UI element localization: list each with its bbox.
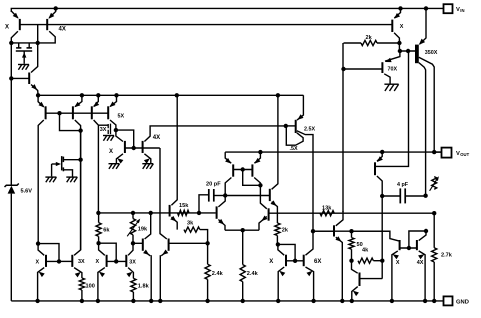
transistor Q25 4X (bottom right): [417, 231, 426, 301]
transistor Q3 (startup NPN): [11, 43, 38, 95]
jfet J3 3X (to ground): [98, 124, 110, 135]
resistor R14 100: [79, 278, 95, 301]
jfet J1 (startup FET, top-left): [16, 43, 32, 64]
ground for Q8 emitter: [109, 164, 120, 169]
resistor R6 2.4k (tail): [240, 230, 258, 301]
wire feedback node bus: [98, 212, 215, 214]
wire second rail (bias rail): [38, 94, 303, 96]
transistor Q31 3X: [72, 131, 85, 278]
ground for J3: [103, 136, 114, 141]
transistor Q20 2.5X (PNP): [286, 120, 316, 133]
svg-text:GND: GND: [456, 299, 469, 305]
node divider tap j: [432, 211, 436, 215]
resistor R2 19k (variable): [127, 213, 148, 243]
transistor Q28 350X (output PNP): [417, 8, 438, 195]
transistor Q5 (PNP diode 2): [73, 95, 82, 250]
transistor Q6 3X (PNP source 3): [92, 95, 99, 213]
transistor Q11 (inner NPN right): [160, 148, 208, 301]
transistor Q26 X (top right PNP): [392, 8, 404, 51]
ground for J2 gate: [45, 177, 56, 182]
svg-text:IN: IN: [460, 8, 464, 13]
transistor Q14 (mirror PNP right): [252, 152, 260, 185]
node fb j4: [197, 211, 201, 215]
transistor Q23 (SOA protection NPN): [352, 261, 383, 301]
wire base tie riser2: [409, 231, 426, 248]
svg-text:2k: 2k: [366, 35, 373, 41]
svg-text:4X: 4X: [59, 27, 66, 33]
wire bottom ground rail: [11, 300, 443, 302]
node Q20 base j: [284, 124, 288, 128]
svg-text:X: X: [109, 149, 113, 155]
transistor Q15 (diff NPN left): [217, 196, 226, 231]
node 4pF right j: [423, 194, 427, 198]
wire Xcol bus corner: [352, 231, 399, 241]
node ground rail j3: [96, 299, 100, 303]
resistor R10 4k: [358, 248, 382, 264]
node rail2 j5: [175, 93, 179, 97]
terminal VOUT: [434, 148, 469, 158]
node 6k bottom: [96, 241, 100, 245]
svg-text:X: X: [400, 24, 404, 30]
resistor R13 2.7k: [432, 213, 453, 301]
transistor Q17 (2nd stage NPN): [270, 95, 278, 223]
svg-text:70X: 70X: [388, 66, 398, 72]
wire mirror base bus: [125, 147, 160, 149]
capacitor C1 20pF: [199, 182, 225, 213]
transistor Q1 X (top-left PNP): [5, 11, 20, 186]
node Q30 collector j: [36, 241, 40, 245]
node zener-line junction: [9, 41, 13, 45]
node ground rail j5: [149, 299, 153, 303]
transistor Q18 X (bottom mirror diode): [269, 244, 286, 301]
wire 2k-to-6Xbase: [278, 244, 295, 260]
wire Q32-Q33 base bus: [107, 260, 127, 262]
svg-text:3X: 3X: [129, 259, 136, 265]
node ground rail j8: [241, 299, 245, 303]
wire diff tail: [225, 229, 259, 231]
svg-text:4k: 4k: [362, 248, 369, 254]
wire Q30-Q31 base bus: [59, 260, 72, 262]
node rail2 j6: [276, 93, 280, 97]
node Q7 collector node: [114, 128, 118, 132]
node ground rail j13: [390, 299, 394, 303]
jfet J2 (to ground, mid-left): [52, 156, 81, 177]
node Q32 base j: [114, 259, 118, 263]
wire rail2 end to Q20 emitter: [297, 95, 304, 120]
node 3k-2.4k j: [205, 241, 209, 245]
transistor Q9 4X (mirror NPN): [143, 126, 286, 164]
transistor Q12 (fb buffer NPN): [170, 95, 178, 229]
svg-text:1.8k: 1.8k: [138, 284, 150, 290]
node ground rail j11: [340, 299, 344, 303]
svg-text:5.6V: 5.6V: [21, 188, 33, 194]
node rail2 j4: [114, 93, 118, 97]
transistor Q8 X (diode NPN): [109, 130, 125, 164]
svg-text:6k: 6k: [103, 227, 110, 233]
svg-text:4 pF: 4 pF: [397, 182, 409, 188]
wire Q5 base-collector tie: [60, 113, 81, 130]
svg-text:X: X: [36, 259, 40, 265]
node mirror base j: [132, 146, 136, 150]
node rail2 j3: [96, 93, 100, 97]
wire gain node to Q17 base: [225, 195, 270, 197]
terminal VIN: [444, 4, 465, 13]
svg-text:6X: 6X: [314, 259, 321, 265]
transistor Q7 5X (PNP source 4): [108, 95, 124, 130]
node diode tie Q5: [78, 128, 82, 132]
node VOUT-line output j: [432, 150, 436, 154]
node 50 bottom: [349, 259, 353, 263]
node top-rail junction A1: [54, 6, 58, 10]
transistor Q27 70X (PNP): [382, 51, 400, 84]
wire Q24-Q25 base tie: [400, 247, 417, 249]
node fb j3: [149, 211, 153, 215]
node Q29 collector 4pF j: [380, 194, 384, 198]
transistor Q10 (inner NPN left): [133, 213, 151, 301]
svg-text:2.5X: 2.5X: [304, 127, 315, 133]
wire top VIN rail: [11, 8, 443, 12]
node mirror base-tie j: [241, 167, 245, 171]
svg-text:4X: 4X: [417, 260, 424, 266]
svg-text:15k: 15k: [179, 203, 189, 209]
node J2 drain tap: [78, 158, 82, 162]
ground for Q27 collector: [384, 84, 398, 91]
svg-text:20 pF: 20 pF: [206, 182, 221, 188]
svg-text:2.4k: 2.4k: [212, 271, 224, 277]
wire input PNP base bus: [46, 112, 109, 114]
node tail j: [241, 228, 245, 232]
node rail2 j1: [36, 93, 40, 97]
wire fb bus right (13k net): [269, 212, 435, 214]
svg-text:4X: 4X: [153, 135, 160, 141]
svg-text:X: X: [96, 259, 100, 265]
transistor Q32 X: [96, 243, 107, 301]
transistor Q30 X (bottom left diode): [36, 244, 60, 301]
node zener-line base tap: [9, 76, 13, 80]
node base tie j: [407, 246, 411, 250]
wire X-6X base bus: [286, 260, 304, 262]
node VOUT sense emitter: [380, 150, 384, 154]
node ground rail j14: [423, 299, 427, 303]
node 70X base tap: [341, 67, 345, 71]
node gain node (20pF tap): [223, 193, 227, 197]
node 350X base j2: [406, 49, 410, 53]
transistor Q33 3X: [126, 243, 136, 278]
transistor Q22 (protection NPN): [313, 211, 343, 301]
wire 2k left drop: [342, 43, 344, 212]
resistor R11 2k: [344, 35, 400, 46]
node Q30 base j: [57, 259, 61, 263]
wire 6k-to-mirrorbase: [99, 243, 117, 261]
resistor R12 (variable, VOUT trim): [430, 176, 439, 191]
node ground rail j4: [131, 299, 135, 303]
svg-text:X: X: [269, 259, 273, 265]
node 2k right j: [397, 41, 401, 45]
svg-text:19k: 19k: [138, 227, 148, 233]
svg-text:2.4k: 2.4k: [247, 271, 259, 277]
transistor Q24 X (bottom right): [392, 240, 400, 301]
node ground rail j6: [158, 299, 162, 303]
node top-rail junction A2: [398, 6, 402, 10]
resistor R3 15k: [178, 203, 190, 216]
node Q25 collector j: [424, 229, 428, 233]
wire mirror bases tie: [233, 170, 260, 186]
ground for J1 gate: [18, 65, 29, 70]
node fb j1: [96, 211, 100, 215]
svg-text:3k: 3k: [187, 220, 194, 226]
wire base bus (input PNP mirror bases): [20, 24, 393, 26]
wire VOUT line: [225, 151, 441, 153]
resistor R7 2k (2nd stage emitter): [275, 223, 289, 244]
node diode-tie junction: [36, 41, 40, 45]
transistor Q29 (VOUT sense PNP): [375, 152, 383, 279]
node X6X base j: [293, 259, 297, 263]
terminal GND: [444, 296, 469, 305]
resistor R8 13k: [320, 206, 334, 216]
wire Q29 base riser: [376, 51, 409, 166]
svg-text:X: X: [396, 260, 400, 266]
transistor Q2 4X (top-left PNP): [11, 8, 66, 43]
zener D1 5.6V: [5, 184, 33, 301]
node 4k right j: [380, 259, 384, 263]
node 2k bottom j: [276, 242, 280, 246]
resistor R15 1.8k: [131, 278, 150, 301]
svg-text:2.7k: 2.7k: [441, 253, 453, 259]
svg-text:350X: 350X: [425, 50, 438, 56]
wire mirror base tie: [116, 130, 134, 148]
svg-text:100: 100: [86, 284, 95, 290]
node mirror out j: [258, 183, 262, 187]
transistor Q4 (PNP current source 1): [38, 95, 46, 243]
svg-text:5X: 5X: [118, 114, 125, 120]
transistor Q16 (diff NPN right): [259, 185, 269, 230]
capacitor C2 4pF: [382, 182, 425, 204]
svg-text:2k: 2k: [282, 228, 289, 234]
transistor Q21 second collector .5X: [286, 127, 313, 231]
wire 350X base bus: [399, 50, 415, 52]
svg-text:3X: 3X: [78, 259, 85, 265]
node top-rail junction A3: [424, 6, 428, 10]
node ground rail j15: [432, 299, 436, 303]
transistor Q13 (mirror PNP left): [225, 152, 233, 195]
node ground rail j1: [35, 299, 39, 303]
node ground rail j2: [80, 299, 84, 303]
node base bus j: [57, 111, 61, 115]
node 350X base j1: [398, 49, 402, 53]
svg-text:13k: 13k: [322, 206, 332, 212]
node ground rail j12: [350, 299, 354, 303]
ground for Q9 emitter: [142, 164, 153, 169]
svg-text:3X: 3X: [100, 127, 107, 133]
node 19k bottom: [131, 241, 135, 245]
resistor R4 3k: [184, 220, 208, 243]
node 5X emitter-6X collector j: [311, 229, 315, 233]
svg-text:.5X: .5X: [290, 146, 298, 152]
wire base tie riser: [37, 25, 39, 43]
resistor R5 2.4k (left): [205, 243, 224, 301]
node 50 top: [349, 229, 353, 233]
node rail2 j2: [80, 93, 84, 97]
resistor R1 6k: [96, 213, 110, 243]
svg-text:X: X: [5, 25, 9, 31]
node fb j2: [131, 211, 135, 215]
svg-text:OUT: OUT: [460, 152, 469, 157]
transistor Q19 6X (bottom mirror out): [304, 231, 322, 301]
wire protection base bus: [313, 230, 390, 232]
node VOUT-line mirror emitter: [258, 150, 262, 154]
node ground rail j9: [276, 299, 280, 303]
ground for J2 source: [66, 177, 77, 182]
resistor R9 50: [349, 231, 363, 261]
node ground rail j10: [311, 299, 315, 303]
node ground rail j7: [205, 299, 209, 303]
wire 70X base: [344, 68, 383, 70]
